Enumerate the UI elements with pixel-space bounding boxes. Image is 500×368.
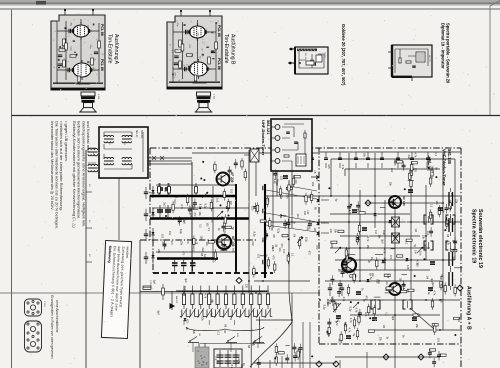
svg-text:100: 100 bbox=[294, 179, 297, 184]
left page edge line bbox=[11, 10, 13, 368]
svg-text:100: 100 bbox=[229, 201, 232, 206]
svg-text:4,7k: 4,7k bbox=[237, 358, 240, 363]
svg-text:0,1µ: 0,1µ bbox=[69, 46, 71, 51]
shielded coil block bbox=[195, 347, 209, 368]
loudspeaker symbol A bbox=[81, 92, 95, 96]
selector top bus bbox=[176, 290, 268, 292]
test point diamonds bbox=[236, 278, 242, 284]
svg-text:4,7k: 4,7k bbox=[432, 291, 435, 296]
svg-text:8,2p: 8,2p bbox=[162, 239, 165, 244]
svg-text:10n: 10n bbox=[278, 247, 281, 252]
connector stubs on top of box B bbox=[181, 11, 210, 16]
svg-text:1n5: 1n5 bbox=[212, 258, 215, 263]
diodes on IF border bbox=[317, 199, 320, 202]
svg-text:Goldene 20 (207, 307, 407, 507: Goldene 20 (207, 307, 407, 507) bbox=[341, 24, 346, 86]
stubs on Goldene box bbox=[288, 49, 294, 63]
svg-text:Grundgeräten in Folien von obe: Grundgeräten in Folien von oben gesehen bbox=[50, 295, 54, 359]
resistors standing on tuner top rail bbox=[158, 187, 161, 194]
UHF tuner interior bbox=[275, 125, 280, 130]
wire from IF box to tuner bbox=[148, 158, 192, 164]
svg-text:werden.: werden. bbox=[125, 246, 130, 259]
svg-text:470: 470 bbox=[315, 245, 318, 250]
svg-text:III B: III B bbox=[236, 333, 238, 337]
svg-text:L 801: L 801 bbox=[97, 94, 99, 100]
sound output stage box B bbox=[167, 16, 222, 89]
svg-text:AF 136: AF 136 bbox=[402, 196, 406, 206]
svg-text:470: 470 bbox=[193, 212, 196, 217]
svg-text:Ausführung B: Ausführung B bbox=[229, 34, 235, 65]
svg-text:2n2: 2n2 bbox=[390, 168, 393, 173]
svg-text:3p9: 3p9 bbox=[391, 316, 394, 321]
wire resistor row bus bbox=[178, 291, 267, 293]
svg-text:8,2p: 8,2p bbox=[203, 254, 206, 259]
svg-text:3p9: 3p9 bbox=[191, 205, 194, 210]
svg-text:581.121: 581.121 bbox=[266, 120, 271, 135]
svg-text:470: 470 bbox=[170, 241, 173, 246]
component cluster VHF tuner area right bbox=[427, 160, 431, 162]
fan wires tuner to IF bbox=[266, 186, 317, 232]
svg-text:8,2p: 8,2p bbox=[382, 230, 385, 235]
svg-text:1n5: 1n5 bbox=[182, 220, 185, 225]
UB arrow bbox=[311, 176, 319, 179]
svg-text:470: 470 bbox=[365, 296, 368, 301]
wire x292 column bbox=[291, 171, 293, 368]
capacitors in box A bbox=[69, 29, 71, 33]
top rail hanging components bbox=[299, 152, 301, 158]
connector block left of UHF tuner bbox=[250, 149, 259, 162]
svg-text:0,1: 0,1 bbox=[392, 204, 395, 208]
svg-text:10n: 10n bbox=[221, 247, 224, 252]
svg-text:2n2: 2n2 bbox=[162, 202, 165, 207]
wire x360 column bbox=[359, 190, 361, 281]
transistor AF136 sound bbox=[389, 283, 401, 295]
svg-text:PCL 86: PCL 86 bbox=[217, 58, 221, 70]
selector bottom links bbox=[184, 320, 260, 325]
svg-text:ohne Abschirmbleche: ohne Abschirmbleche bbox=[55, 300, 59, 333]
wire x119 column bbox=[118, 177, 120, 240]
svg-text:1n5: 1n5 bbox=[327, 164, 330, 169]
hatched bar in Goldene box bbox=[297, 49, 317, 52]
wire x375 column bbox=[374, 153, 376, 228]
wire tuner rail 4 bbox=[156, 251, 236, 253]
lower chassis dash-dot border bbox=[319, 343, 461, 345]
svg-text:• befinden sich auf der Leiter: • befinden sich auf der Leiterplatte Röh… bbox=[59, 121, 64, 211]
svg-text:Souverän electronic 19: Souverän electronic 19 bbox=[477, 209, 483, 268]
wire x249 column bbox=[248, 150, 250, 293]
wire x455 column bbox=[454, 170, 456, 260]
resistors in box A bbox=[63, 39, 66, 46]
svg-text:Ausführung A + B: Ausführung A + B bbox=[466, 286, 472, 330]
electrolytic capacitors right column bbox=[449, 192, 453, 206]
svg-text:1n5: 1n5 bbox=[338, 338, 341, 343]
svg-text:Ton-Endstufe: Ton-Endstufe bbox=[107, 34, 113, 64]
wire left column bbox=[85, 150, 87, 368]
svg-text:Die Toleranzen aller Meßwerte: Die Toleranzen aller Meßwerte können bis… bbox=[55, 121, 60, 229]
svg-text:8,2p: 8,2p bbox=[306, 225, 309, 230]
svg-text:3p9: 3p9 bbox=[157, 310, 160, 315]
svg-text:10n: 10n bbox=[285, 194, 288, 199]
svg-text:8,2p: 8,2p bbox=[273, 179, 276, 184]
svg-text:470: 470 bbox=[210, 218, 213, 223]
svg-text:10n: 10n bbox=[168, 231, 171, 236]
svg-text:1n5: 1n5 bbox=[364, 312, 367, 317]
resistors in box B bbox=[179, 40, 182, 47]
black caps below bus3 bbox=[172, 263, 178, 266]
chassis border top dash-dot bbox=[150, 147, 461, 149]
wires inside box A bbox=[57, 19, 99, 84]
svg-text:PCL 86: PCL 86 bbox=[100, 24, 104, 36]
svg-text:0,1: 0,1 bbox=[434, 153, 437, 157]
svg-text:0,1: 0,1 bbox=[290, 253, 293, 257]
svg-text:100: 100 bbox=[334, 302, 337, 307]
loudspeaker symbol B bbox=[197, 92, 211, 96]
svg-text:125: 125 bbox=[244, 284, 247, 289]
svg-text:100: 100 bbox=[437, 338, 440, 343]
svg-text:8,2p: 8,2p bbox=[323, 305, 326, 310]
svg-text:125: 125 bbox=[182, 292, 185, 297]
wire x273 column bbox=[273, 171, 277, 228]
svg-text:4,7k: 4,7k bbox=[229, 315, 232, 320]
tuner left capacitors bbox=[144, 192, 148, 194]
svg-text:Elektrolyt-Kondensatoren mit g: Elektrolyt-Kondensatoren mit gleicher Ke… bbox=[72, 121, 77, 228]
svg-text:V 801: V 801 bbox=[43, 301, 45, 307]
wire tuner thick bus 2 bbox=[150, 217, 249, 219]
svg-text:AF 239: AF 239 bbox=[230, 172, 234, 183]
svg-text:BA 102: BA 102 bbox=[175, 296, 178, 304]
svg-text:0,1: 0,1 bbox=[217, 332, 220, 336]
svg-text:8,2p: 8,2p bbox=[230, 365, 233, 368]
svg-text:4,7k: 4,7k bbox=[354, 308, 357, 313]
wire x236 thick column bbox=[235, 184, 237, 273]
svg-text:UB: UB bbox=[313, 170, 316, 174]
svg-text:Diplomat 19 - Imperator: Diplomat 19 - Imperator bbox=[441, 23, 446, 69]
circuit inside Spectra portable box bbox=[395, 49, 428, 73]
svg-text:100: 100 bbox=[230, 189, 233, 194]
svg-text:8,2p: 8,2p bbox=[198, 204, 201, 209]
svg-text:470: 470 bbox=[282, 249, 285, 254]
svg-text:8,2p: 8,2p bbox=[223, 228, 226, 233]
svg-text:4,7k: 4,7k bbox=[186, 239, 189, 244]
svg-text:10n: 10n bbox=[385, 280, 388, 285]
svg-text:8,2p: 8,2p bbox=[348, 307, 351, 312]
tube socket pin diagram small bbox=[25, 299, 42, 316]
svg-text:Tonteil: Tonteil bbox=[324, 52, 327, 58]
fuse warning note box bbox=[101, 240, 131, 338]
wire tuner thick bus 3 bbox=[157, 257, 218, 260]
svg-text:125: 125 bbox=[393, 160, 396, 165]
svg-text:10n: 10n bbox=[419, 251, 422, 256]
svg-text:1M: 1M bbox=[292, 234, 295, 237]
svg-text:PCL 86: PCL 86 bbox=[100, 59, 104, 71]
sound output stage box A bbox=[51, 15, 105, 90]
svg-text:0,1: 0,1 bbox=[198, 224, 201, 228]
svg-text:8,2p: 8,2p bbox=[253, 232, 256, 237]
svg-text:4,7k: 4,7k bbox=[383, 248, 386, 253]
right page edge line bbox=[489, 6, 491, 116]
svg-text:1M: 1M bbox=[382, 325, 385, 328]
svg-text:1M: 1M bbox=[313, 227, 316, 230]
svg-text:125: 125 bbox=[386, 274, 389, 279]
svg-text:1M: 1M bbox=[374, 230, 377, 233]
wire chassis long rail y196 bbox=[266, 195, 460, 197]
svg-text:PCL 86: PCL 86 bbox=[217, 25, 221, 37]
svg-text:100: 100 bbox=[296, 213, 299, 218]
svg-text:Spectra electronic 19: Spectra electronic 19 bbox=[471, 209, 477, 263]
svg-text:3p9: 3p9 bbox=[430, 278, 433, 283]
wire lower mid rails bbox=[254, 280, 310, 282]
wire tuner rail 1 bbox=[191, 162, 193, 273]
svg-text:Ausführung A: Ausführung A bbox=[113, 34, 119, 65]
transistor IF amp 1 bbox=[342, 258, 356, 272]
coils left of IF box bbox=[88, 148, 98, 150]
svg-text:8,2p: 8,2p bbox=[179, 229, 182, 234]
svg-text:3p9: 3p9 bbox=[380, 239, 383, 244]
svg-text:4,7k: 4,7k bbox=[180, 204, 183, 209]
black component clusters on tuner buses bbox=[157, 188, 163, 190]
svg-text:581.221: 581.221 bbox=[428, 55, 430, 62]
parts left of selector bbox=[140, 291, 178, 293]
IF transformer box bbox=[99, 127, 148, 178]
svg-text:4,7k: 4,7k bbox=[416, 260, 419, 265]
svg-text:4,7k: 4,7k bbox=[347, 328, 350, 333]
svg-text:0,1µ: 0,1µ bbox=[190, 64, 192, 69]
transistor AF139 oscillator bbox=[217, 235, 231, 249]
svg-text:0,1: 0,1 bbox=[404, 241, 407, 245]
wire bottom left curve bbox=[250, 322, 292, 367]
diodes in IF demod section bbox=[374, 213, 377, 216]
wire x349 column bbox=[348, 153, 350, 258]
trimmer arrows lower bbox=[333, 303, 341, 312]
wires inside box B bbox=[173, 20, 216, 83]
tuner switching diodes bbox=[151, 190, 154, 193]
electrolytic capacitor block bbox=[214, 349, 242, 368]
coil symbols in IF box bbox=[104, 135, 114, 137]
junction dots bbox=[164, 195, 166, 197]
lower horizontal page line bbox=[0, 292, 320, 294]
box Spectra portable bbox=[392, 45, 432, 77]
channel selector contact hooks bbox=[180, 310, 188, 317]
svg-text:581.311: 581.311 bbox=[140, 130, 143, 139]
svg-text:1M: 1M bbox=[457, 318, 460, 321]
component cluster VHF tuner bbox=[199, 207, 201, 209]
svg-text:Innenwiderstand des Meßinstrum: Innenwiderstand des Meßinstrumentes ≧ 20… bbox=[50, 121, 55, 211]
wire x213 column bbox=[212, 186, 214, 258]
transistor AF239 mixer bbox=[217, 173, 230, 186]
wire x443 column bbox=[442, 153, 444, 330]
svg-text:L 801: L 801 bbox=[213, 94, 215, 100]
potentiometer arrows bbox=[202, 192, 208, 198]
svg-text:8,2p: 8,2p bbox=[183, 286, 186, 291]
horizontal divider line bbox=[12, 115, 500, 117]
svg-text:470: 470 bbox=[186, 319, 189, 324]
component cluster mixer area bbox=[228, 170, 232, 172]
svg-text:4,7k: 4,7k bbox=[348, 210, 351, 215]
svg-text:100: 100 bbox=[173, 199, 176, 204]
component cluster IF demod section bbox=[385, 292, 389, 294]
svg-text:1n5: 1n5 bbox=[267, 198, 270, 203]
svg-text:1n5: 1n5 bbox=[231, 248, 234, 253]
tube PCL86 pentode section (B) bbox=[190, 62, 208, 76]
component cluster IF lower left bbox=[374, 296, 381, 298]
fuse symbol bbox=[143, 286, 151, 289]
black marks right section bbox=[352, 210, 357, 212]
svg-text:581.130: 581.130 bbox=[447, 149, 452, 165]
wire x331 column bbox=[330, 166, 332, 196]
svg-text:1n5: 1n5 bbox=[216, 198, 219, 203]
svg-text:4,7k: 4,7k bbox=[204, 293, 207, 298]
tube PCL86 triode section (A) bbox=[73, 25, 89, 37]
wire top chassis rail bbox=[192, 152, 460, 153]
svg-text:2n2: 2n2 bbox=[407, 155, 410, 160]
svg-text:100: 100 bbox=[251, 206, 254, 211]
wire tuner rail 3 bbox=[152, 207, 249, 209]
svg-text:1n5: 1n5 bbox=[428, 156, 431, 161]
wire tuner rail 2 bbox=[156, 184, 236, 186]
svg-text:125: 125 bbox=[177, 219, 180, 224]
svg-text:1M: 1M bbox=[414, 228, 417, 231]
tube PCL86 triode section (B) bbox=[190, 26, 206, 38]
top-right corner diagonal bbox=[490, 1, 500, 7]
wire x426 column bbox=[425, 185, 427, 260]
wire x395 column bbox=[394, 208, 396, 368]
svg-text:4,7k: 4,7k bbox=[342, 297, 345, 302]
svg-text:3p9: 3p9 bbox=[152, 280, 155, 285]
svg-text:3p9: 3p9 bbox=[343, 322, 346, 327]
svg-text:V 801: V 801 bbox=[149, 280, 151, 286]
wire chassis long rail y222 bbox=[266, 221, 460, 223]
svg-text:AF 139: AF 139 bbox=[231, 236, 235, 247]
circuit inside Goldene 20 box bbox=[299, 51, 324, 68]
svg-text:100: 100 bbox=[160, 234, 163, 239]
svg-text:581 221: 581 221 bbox=[304, 53, 306, 61]
wire tuner thick bus 1 bbox=[150, 195, 236, 197]
svg-text:1n5: 1n5 bbox=[330, 244, 333, 249]
tube PCL86 pentode section (A) bbox=[73, 63, 91, 77]
svg-text:0,1µ: 0,1µ bbox=[61, 45, 63, 50]
svg-text:0,1µ: 0,1µ bbox=[89, 44, 91, 49]
svg-text:1n5: 1n5 bbox=[303, 211, 306, 216]
svg-text:1M: 1M bbox=[413, 250, 416, 253]
wire x411 column bbox=[410, 182, 412, 300]
svg-text:VHF-Dioden-Tuner: VHF-Dioden-Tuner bbox=[442, 149, 447, 186]
wire x265 thick bus bbox=[264, 184, 266, 278]
svg-text:1M: 1M bbox=[430, 170, 433, 173]
svg-text:3p9: 3p9 bbox=[394, 281, 397, 286]
svg-text:470: 470 bbox=[182, 251, 185, 256]
UHF-Dioden-Tuner box bbox=[271, 119, 312, 171]
svg-text:0,1: 0,1 bbox=[384, 312, 387, 316]
selector switches bbox=[188, 337, 199, 343]
wire right rails bbox=[365, 202, 443, 204]
svg-text:125: 125 bbox=[189, 213, 192, 218]
svg-text:100: 100 bbox=[205, 222, 208, 227]
diagonal wire lower right bbox=[410, 308, 434, 329]
scan edge top strip bbox=[0, 0, 500, 2]
svg-text:Ton-Endstufe: Ton-Endstufe bbox=[223, 34, 229, 64]
svg-text:470: 470 bbox=[308, 251, 311, 256]
wire right top rail 1 bbox=[331, 159, 455, 170]
component cluster IF mid bbox=[345, 247, 350, 249]
bottom edge stubs bbox=[270, 322, 367, 368]
svg-text:0,1: 0,1 bbox=[207, 228, 210, 232]
transistor AF136 video bbox=[389, 196, 401, 208]
component cluster bottom middle bbox=[257, 363, 261, 365]
svg-text:125: 125 bbox=[280, 176, 283, 181]
svg-text:0,1: 0,1 bbox=[430, 204, 433, 208]
svg-text:1n5: 1n5 bbox=[271, 247, 274, 252]
horizontal rule below top strip bbox=[0, 8, 500, 10]
capacitors in box B bbox=[186, 30, 188, 34]
svg-text:100: 100 bbox=[257, 254, 260, 259]
svg-text:3p9: 3p9 bbox=[184, 278, 187, 283]
wire right top rail 2 bbox=[345, 169, 440, 176]
svg-text:1n5: 1n5 bbox=[163, 188, 166, 193]
svg-text:4,7k: 4,7k bbox=[326, 299, 329, 304]
wire left column 2 bbox=[139, 240, 141, 368]
svg-text:470: 470 bbox=[389, 255, 392, 260]
component cluster below UHF bbox=[273, 173, 277, 175]
caps lower left of AF136 bbox=[328, 288, 332, 290]
svg-text:4,7k: 4,7k bbox=[341, 164, 344, 169]
svg-text:8,2p: 8,2p bbox=[276, 228, 279, 233]
svg-text:4,7k: 4,7k bbox=[349, 318, 352, 323]
channel selector resistor bank bbox=[183, 286, 185, 295]
svg-text:2n2: 2n2 bbox=[251, 241, 254, 246]
svg-text:• gegen UB gemessen.: • gegen UB gemessen. bbox=[64, 121, 69, 162]
X potentiometer symbols bbox=[392, 217, 400, 227]
stubs on left column bbox=[86, 191, 92, 193]
svg-text:UHF-Dioden-Tuner: UHF-Dioden-Tuner bbox=[261, 120, 266, 156]
connector stubs on top of box A bbox=[65, 10, 93, 15]
selector brace bbox=[186, 327, 264, 333]
svg-text:10n: 10n bbox=[435, 201, 438, 206]
chassis border right dash-dot bbox=[460, 148, 462, 368]
selector left diode bbox=[171, 291, 173, 310]
svg-text:3p9: 3p9 bbox=[210, 313, 213, 318]
svg-text:125: 125 bbox=[406, 265, 409, 270]
tuned circuit bracket symbols bbox=[424, 215, 433, 224]
tuner sub-block dash-dot borders bbox=[149, 148, 151, 240]
component cluster IF strip left bbox=[281, 214, 286, 216]
svg-text:470: 470 bbox=[271, 255, 274, 260]
svg-text:470: 470 bbox=[405, 289, 408, 294]
svg-text:4,7k: 4,7k bbox=[366, 237, 369, 242]
svg-text:4,7k: 4,7k bbox=[335, 321, 338, 326]
svg-text:470: 470 bbox=[191, 247, 194, 252]
wire x289 column bbox=[289, 180, 292, 322]
svg-text:100: 100 bbox=[377, 279, 380, 284]
svg-text:4,7k: 4,7k bbox=[414, 153, 417, 158]
svg-text:2n2: 2n2 bbox=[201, 247, 204, 252]
svg-text:8,2p: 8,2p bbox=[203, 204, 206, 209]
svg-text:1M: 1M bbox=[426, 276, 429, 279]
svg-text:10n: 10n bbox=[251, 342, 254, 347]
svg-text:10n: 10n bbox=[205, 242, 208, 247]
component cluster bottom right bbox=[432, 362, 436, 364]
wire x385 column bbox=[384, 200, 386, 270]
svg-text:8,2p: 8,2p bbox=[304, 237, 307, 242]
svg-text:1n5: 1n5 bbox=[329, 229, 332, 234]
wires below selector right side bbox=[251, 305, 259, 368]
box Goldene 20 bbox=[295, 47, 328, 74]
tube socket pin diagram large bbox=[25, 321, 42, 352]
IF shield border dash-dot bbox=[318, 148, 320, 344]
